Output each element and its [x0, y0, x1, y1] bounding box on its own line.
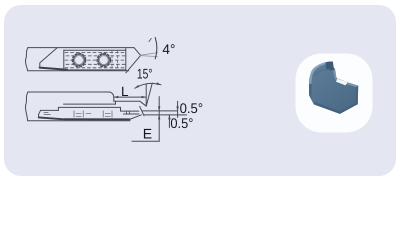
svg-text:0.5°: 0.5° [180, 100, 204, 116]
V1 arrowhead up [158, 115, 161, 120]
V1 arrowhead down [158, 106, 161, 111]
break line left (top view) [25, 48, 28, 71]
under-curl dark tip [326, 62, 335, 71]
step to tail [120, 107, 122, 111]
dimension arc 4deg [155, 37, 157, 58]
serration dash e [105, 115, 110, 117]
dimension arc 15deg [135, 83, 161, 88]
break line left (side view) [25, 92, 28, 121]
vertical reference line [145, 84, 147, 106]
dimension texts [121, 41, 203, 142]
box dash b [44, 113, 51, 115]
serration tick s2 [82, 111, 84, 117]
step down to pocket [109, 92, 114, 101]
screw hole 2 interior [98, 54, 110, 66]
hatch dashes row2 [66, 55, 125, 57]
page background [0, 0, 400, 181]
tail divider 2 [128, 111, 130, 114]
L arrow left [114, 96, 119, 99]
lavender panel [4, 5, 396, 176]
insert block right edge [125, 49, 127, 71]
svg-text:L: L [121, 84, 129, 99]
V2 arrowhead up [168, 115, 171, 120]
wedge line lower [141, 56, 158, 57]
screw hole 1 inner ring [75, 56, 84, 65]
insert bottom thick line [64, 118, 130, 120]
top edge of blade side [28, 91, 109, 93]
serration dashed vertical 2 [117, 51, 119, 70]
reference line H2 [144, 114, 186, 116]
left edge highlight band [309, 76, 312, 85]
svg-text:E: E [143, 126, 152, 142]
insert block top edge [64, 49, 126, 51]
insert block bottom edge [64, 69, 126, 71]
pocket back wall [115, 101, 117, 104]
tilted edge extension [146, 83, 152, 106]
nose diagonal [134, 48, 141, 56]
arc arrowhead left [135, 85, 140, 88]
screw hole 2 outer dashed ring [97, 53, 110, 66]
svg-text:4°: 4° [162, 41, 175, 57]
serration dash d [76, 115, 81, 117]
insert left step [57, 107, 59, 110]
pocket left edge [39, 110, 41, 117]
bottom edge of blade [28, 70, 129, 72]
white corner notch [336, 79, 348, 86]
screw hole 1 interior [73, 54, 85, 66]
arrow shaft V2 [168, 115, 170, 128]
hatch dashes row3 [65, 59, 125, 61]
serration dashed vertical 1 [111, 51, 113, 70]
serration dash a [76, 113, 81, 115]
clamp finger front diagonal [140, 101, 146, 106]
screw hole 2 inner ring [99, 56, 108, 65]
bottom-left edge shade [314, 102, 340, 114]
arc arrowhead right [156, 82, 161, 85]
serration tick s3 [102, 111, 104, 117]
white rounded blob [296, 54, 373, 133]
box dash a [44, 112, 48, 114]
V3 arrowhead down [176, 106, 179, 111]
hatch dashes row1 [65, 51, 125, 53]
hatch dashes row4 [66, 63, 125, 65]
serration tick s4 [111, 111, 113, 117]
insert body silhouette [309, 62, 358, 114]
blade bottom edge [28, 120, 130, 122]
top edge of blade [28, 47, 134, 49]
clamp front diagonal [40, 48, 57, 67]
pocket ledge line [41, 109, 59, 111]
top edge chamfer band [333, 69, 358, 87]
insert block left edge [63, 50, 65, 70]
insert top edge line b [58, 106, 120, 108]
cap ridge highlight [310, 62, 331, 80]
insert front edge [140, 106, 144, 115]
L dimension line [114, 96, 146, 98]
serration dash b [86, 113, 91, 115]
svg-text:0.5°: 0.5° [170, 115, 193, 131]
pocket top surface [114, 100, 140, 102]
insert tail top line [121, 110, 139, 112]
lead cutting edge 15deg [126, 55, 141, 72]
clamp seat thick line [40, 68, 67, 70]
E horizontal line [132, 140, 159, 142]
tail divider 1 [126, 111, 128, 114]
serration tick s1 [73, 111, 75, 117]
right edge dark band [355, 86, 358, 106]
screw hole 1 outer dashed ring [72, 53, 85, 66]
bottom-right edge shade [340, 103, 358, 114]
hook underside shadow [314, 69, 331, 77]
left edge dark band [309, 84, 314, 105]
arrow shaft V1 / E extension [158, 97, 160, 142]
wedge line upper [141, 53, 158, 56]
arrow shaft V3 [177, 101, 179, 117]
hatch dashes row5 [65, 67, 125, 69]
small tick above wedge [149, 38, 151, 41]
serration dash c [105, 113, 110, 115]
screw hole 1 solid ring [74, 55, 85, 66]
pocket seat thick line [39, 117, 62, 119]
L arrow right [142, 96, 147, 99]
insert top edge line a [64, 103, 116, 105]
svg-text:15°: 15° [137, 66, 153, 82]
insert tail lower line [124, 113, 139, 115]
bottom chamfer to tip [130, 115, 142, 120]
reference line H1 [142, 110, 177, 112]
screw hole 2 solid ring [98, 55, 109, 66]
